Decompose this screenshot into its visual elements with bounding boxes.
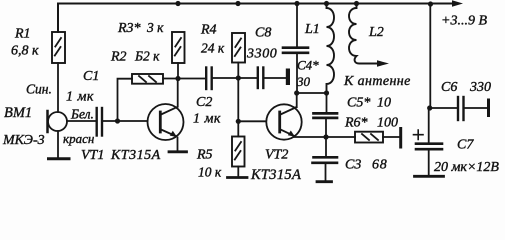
wire R3 to collector node [177, 63, 179, 79]
svg-text:100: 100 [377, 116, 398, 131]
svg-text:Б2 к: Б2 к [134, 49, 160, 64]
wire VT2 emitter to R6 [294, 136, 355, 138]
wire base node down [237, 78, 239, 137]
wire C1 to base node VT1 [103, 120, 148, 122]
svg-text:68: 68 [372, 158, 388, 173]
wire base node up to R2 [118, 79, 133, 121]
resistor R3* 3k [172, 32, 185, 63]
wire collector node to VT2 [296, 93, 298, 107]
wire R2 to collector node [163, 78, 178, 80]
wire to VT2 base [238, 120, 266, 122]
wire C8a from rail down [296, 4, 298, 47]
svg-text:L2: L2 [368, 25, 384, 40]
capacitor C8 3300 bypass plates [283, 48, 308, 53]
wire R1 to microphone [57, 63, 59, 112]
capacitor C5* 10 [314, 93, 338, 137]
node junction dot collector VT2 [294, 90, 299, 95]
capacitor C2 1uF [206, 68, 212, 90]
capacitor C4* 30 trimmer plate [286, 69, 290, 86]
svg-text:R5: R5 [196, 148, 213, 163]
svg-text:24 к: 24 к [201, 41, 225, 56]
wire microphone output to C1 [67, 120, 96, 122]
wire C8 to collector node VT2 [296, 54, 298, 93]
ground C3 [317, 180, 332, 183]
ground C6 side bar [487, 100, 490, 116]
node junction dot L1 bottom [324, 90, 329, 95]
svg-text:330: 330 [469, 80, 491, 95]
node junction dot rail R3 [175, 1, 180, 6]
svg-text:+3...9 В: +3...9 В [441, 14, 487, 29]
svg-text:3300: 3300 [246, 47, 277, 62]
wire collector node to L1 [297, 92, 327, 94]
capacitor C3 68 [313, 137, 338, 181]
svg-text:R1: R1 [14, 27, 31, 42]
svg-text:Син.: Син. [26, 82, 52, 97]
node junction dot collector VT1 [175, 76, 180, 81]
svg-text:С4*: С4* [297, 58, 319, 73]
node antenna arrow [377, 60, 389, 66]
svg-text:R4: R4 [200, 23, 217, 38]
svg-text:КТ315А: КТ315А [110, 148, 161, 163]
svg-text:красн: красн [63, 131, 94, 146]
svg-text:VT2: VT2 [265, 148, 288, 163]
capacitor C7 20uF electrolytic [414, 108, 443, 175]
svg-text:С2: С2 [196, 95, 212, 110]
svg-text:К антенне: К антенне [343, 74, 411, 89]
wire R4 to base node [237, 63, 239, 79]
transistor VT2 KT315A [266, 104, 301, 139]
capacitor C8 3300 coupling [258, 68, 264, 89]
node junction dot rail L2 [354, 1, 359, 6]
inductor L1 [327, 4, 335, 94]
svg-text:20 мк×12В: 20 мк×12В [434, 160, 499, 175]
wire C6 to ground bar [465, 107, 488, 109]
wire R6 to ground bar [383, 136, 399, 138]
node junction dot rail C8 [294, 1, 299, 6]
node junction dot emitter VT2 [323, 134, 328, 139]
wire R5 to ground [237, 167, 239, 177]
ground C7 [415, 175, 444, 178]
svg-text:КТ315А: КТ315А [250, 167, 301, 183]
svg-text:10 к: 10 к [198, 165, 222, 180]
svg-text:ВМ1: ВМ1 [4, 105, 32, 121]
wire to C6 [430, 107, 457, 109]
svg-text:R6*: R6* [344, 116, 368, 131]
node junction dot rail R4 [235, 1, 240, 6]
capacitor C6 330 [458, 97, 464, 120]
svg-text:С5*: С5* [347, 96, 370, 111]
svg-text:С8: С8 [255, 26, 271, 41]
svg-text:С6: С6 [441, 80, 457, 95]
wire collector node down to VT1 [177, 79, 179, 107]
svg-text:МКЭ-3: МКЭ-3 [2, 133, 45, 148]
resistor R6* 100 [355, 132, 383, 143]
wire collector node to C2 [178, 78, 205, 80]
node junction dot rail +V branch [428, 1, 433, 6]
svg-text:Бел.: Бел. [70, 107, 94, 122]
microphone BM1 MKE-3 [48, 111, 68, 132]
ground VT1 emitter [169, 150, 187, 153]
wire microphone to ground [57, 131, 59, 158]
node supply arrow to +3...9V [452, 0, 463, 6]
svg-text:6,8 к: 6,8 к [11, 44, 39, 59]
svg-text:С1: С1 [83, 69, 99, 84]
ground microphone [49, 157, 70, 160]
node junction dot base VT2 [236, 119, 241, 124]
resistor R4 24k [232, 33, 245, 63]
wire C2 to base node VT2 [213, 77, 238, 79]
svg-text:С3: С3 [345, 158, 361, 173]
wire top supply rail [58, 4, 452, 33]
wire base node to feedback caps [238, 77, 256, 79]
node junction dot rail L1 [324, 1, 329, 6]
svg-text:R2: R2 [110, 50, 127, 65]
resistor R1 6,8k [52, 32, 65, 63]
inductor L2 [349, 4, 377, 64]
ground R5 [228, 176, 248, 179]
capacitor C1 1uF [97, 108, 102, 136]
svg-text:1 мк: 1 мк [193, 112, 221, 127]
svg-text:30: 30 [296, 74, 311, 89]
wire VT1 emitter to ground [177, 138, 179, 152]
node junction dot C6 C7 [427, 105, 432, 110]
resistor R5 10k [232, 137, 245, 167]
svg-text:С7: С7 [457, 138, 474, 153]
ground R6 side bar [399, 129, 402, 148]
svg-text:R3*: R3* [117, 21, 141, 36]
svg-text:1 мк: 1 мк [66, 90, 94, 105]
wire C8 to C4 plate [265, 77, 286, 79]
svg-text:10: 10 [377, 96, 391, 111]
node junction dot base VT1 [115, 118, 120, 123]
transistor VT1 KT315A [148, 104, 184, 140]
wire +V branch down [429, 4, 431, 108]
node junction dot base branch VT2 [236, 75, 241, 80]
svg-text:L1: L1 [304, 22, 320, 37]
resistor R2 62k [132, 74, 163, 84]
svg-text:3 к: 3 к [146, 20, 164, 35]
svg-text:VT1: VT1 [81, 148, 104, 163]
